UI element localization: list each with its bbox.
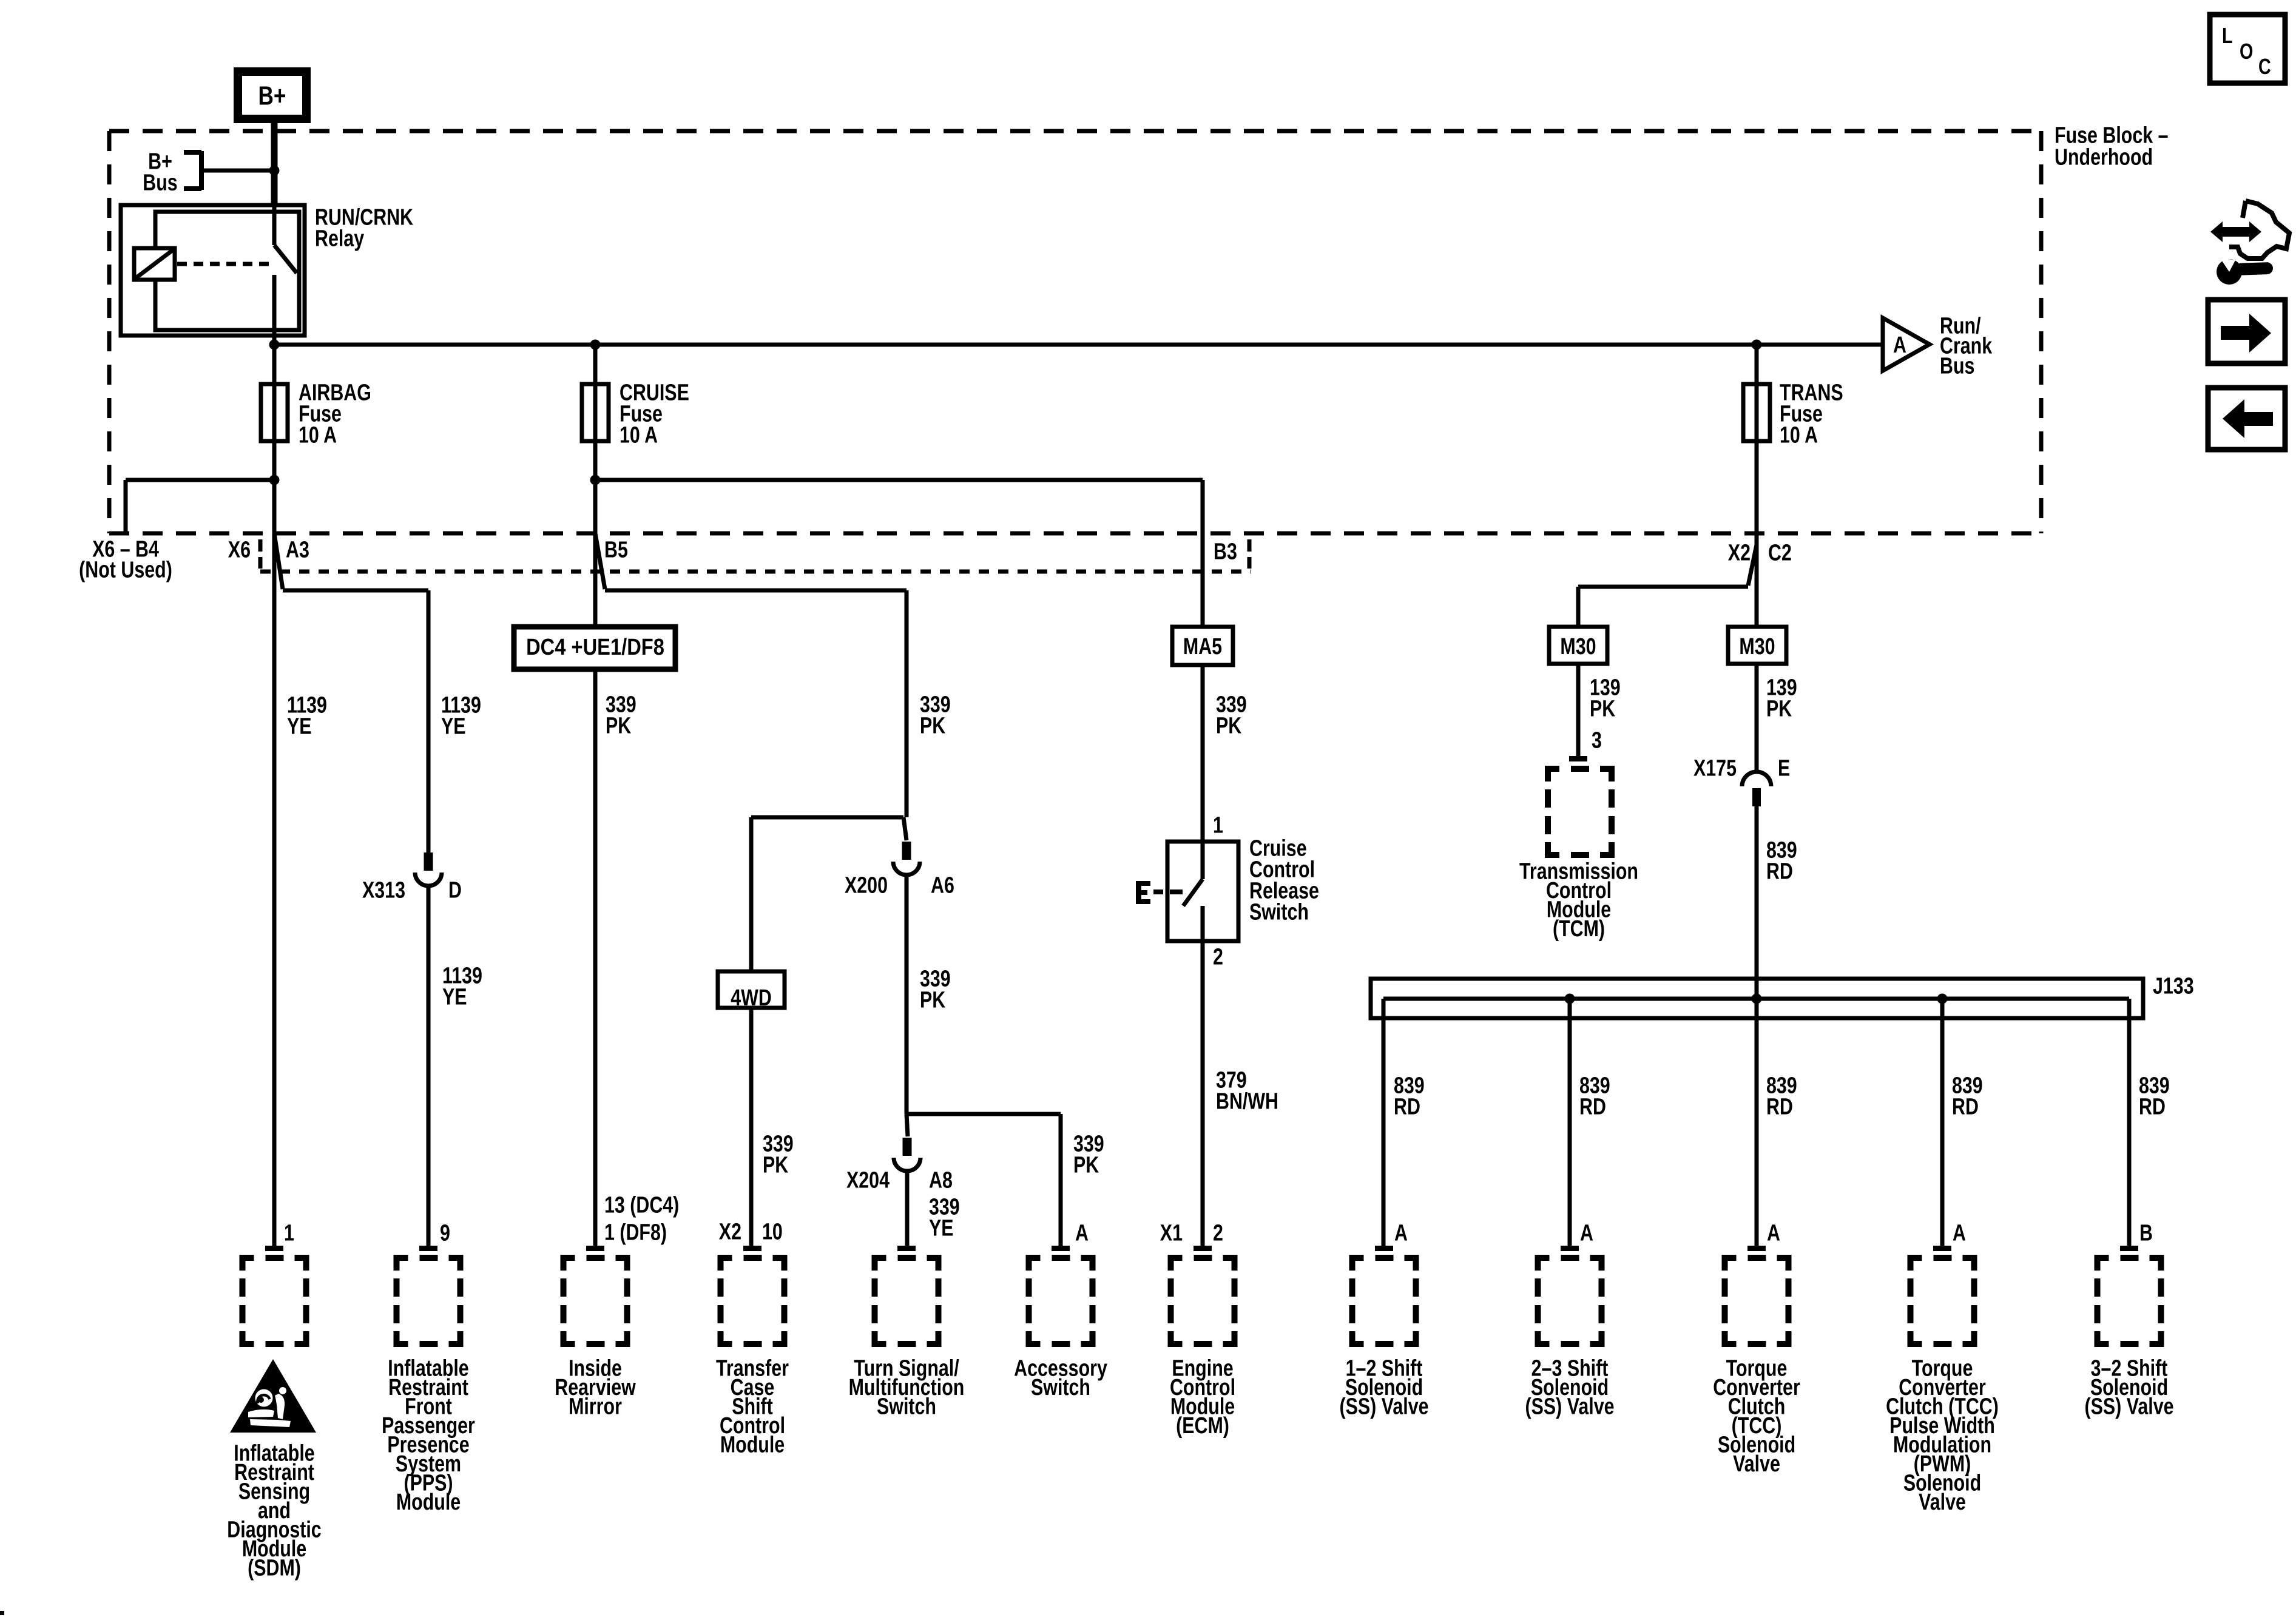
module transfer case dashed box (718, 1255, 788, 1347)
svg-text:PK: PK (763, 1152, 788, 1178)
node cruise fuse output (590, 475, 601, 485)
wire MA5 to cruise release switch (1201, 665, 1205, 842)
wire 339 PK to transfer case (749, 1008, 754, 1247)
svg-text:Module: Module (720, 1432, 785, 1457)
wire B+ bus tap (204, 169, 274, 173)
splice M30 (TCM) (1549, 627, 1607, 664)
terminal mirror (586, 1246, 604, 1251)
wire B+ to relay (271, 119, 278, 205)
label 1139 YE (SDM) (287, 692, 327, 739)
module turn signal dashed box (872, 1255, 942, 1347)
svg-text:X1: X1 (1160, 1220, 1183, 1246)
label 839 RD (1579, 1073, 1610, 1119)
label TRANS fuse (1780, 380, 1843, 448)
svg-text:PK: PK (920, 987, 945, 1013)
relay RUN/CRNK box (121, 205, 305, 336)
svg-text:YE: YE (929, 1215, 954, 1241)
svg-text:A: A (1953, 1220, 1966, 1246)
svg-text:A3: A3 (286, 537, 309, 562)
svg-text:BN/WH: BN/WH (1216, 1089, 1278, 1114)
label 839 RD (1766, 1073, 1797, 1119)
terminal PPS (419, 1246, 437, 1251)
label TCC Solenoid Valve (1713, 1355, 1800, 1476)
svg-text:RD: RD (1579, 1094, 1606, 1119)
wire 839 RD to TCC solenoid (1755, 999, 1759, 1247)
svg-text:PK: PK (1073, 1152, 1099, 1178)
label TCC PWM Solenoid Valve (1886, 1355, 1999, 1514)
module TCC PWM dashed box (1908, 1255, 1977, 1347)
terminal 2-3 shift (1561, 1246, 1579, 1251)
label 339 PK (transfer case) (763, 1131, 794, 1178)
wire bus through trans fuse (1755, 345, 1759, 627)
svg-text:RD: RD (1766, 1094, 1793, 1119)
svg-text:1: 1 (284, 1220, 294, 1246)
wire 1139 YE to X313 (427, 590, 431, 852)
svg-text:RD: RD (1394, 1094, 1420, 1119)
label Run/Crank Bus (1940, 313, 1993, 379)
svg-text:PK: PK (920, 713, 945, 738)
wire to ECM branch B3 (595, 478, 1203, 482)
label 339 PK (mirror) (606, 692, 636, 738)
svg-text:X2: X2 (719, 1219, 741, 1244)
connector X175 pin E (1742, 772, 1771, 806)
relay dashed actuator link (177, 262, 271, 266)
label 3-2 Shift Solenoid Valve (2085, 1355, 2174, 1419)
wire X200 slant (903, 817, 907, 840)
svg-text:O: O (2240, 39, 2253, 64)
module 3-2 shift dashed box (2095, 1255, 2164, 1347)
label Fuse Block - Underhood (2055, 123, 2169, 170)
splice pack J133 box (1371, 979, 2143, 1018)
label 2-3 Shift Solenoid Valve (1525, 1355, 1615, 1419)
svg-text:L: L (2222, 23, 2233, 48)
terminal accessory (1052, 1246, 1070, 1251)
svg-text:PK: PK (606, 713, 631, 738)
wire X6-B4 stub (124, 480, 128, 532)
svg-text:D: D (448, 877, 462, 903)
cruise switch contacts (1153, 842, 1203, 941)
terminal transfer case (743, 1246, 761, 1251)
svg-text:Switch: Switch (1031, 1375, 1090, 1400)
splice DC4 +UE1/DF8 (514, 627, 675, 669)
B+ battery terminal (238, 72, 306, 119)
wire 379 BN/WH to ECM (1201, 941, 1205, 1247)
svg-text:(ECM): (ECM) (1176, 1413, 1229, 1439)
svg-text:B+: B+ (258, 81, 286, 111)
label 1139 YE below X313 (442, 963, 482, 1010)
svg-text:9: 9 (440, 1220, 450, 1246)
wire M30 to TCM (1576, 664, 1581, 756)
wire to TCM branch (1578, 585, 1748, 589)
label Cruise Control Release Switch (1249, 836, 1319, 925)
svg-text:Valve: Valve (1919, 1490, 1966, 1515)
wire TCM branch down (1576, 587, 1581, 627)
cruise switch E plunger glyph (1136, 881, 1150, 904)
fuse block underhood dashed border (109, 131, 2041, 533)
label Transmission Control Module (TCM) (1519, 859, 1638, 941)
wire 4WD down (749, 817, 754, 971)
label 339 PK (ECM branch) (1216, 692, 1247, 738)
svg-text:Mirror: Mirror (569, 1394, 622, 1419)
terminal turn signal (897, 1246, 916, 1251)
switch Cruise Control Release box (1167, 842, 1238, 941)
fuse CRUISE 10A (582, 384, 609, 441)
svg-text:A: A (1767, 1220, 1780, 1246)
svg-text:Module: Module (396, 1490, 461, 1515)
label 839 RD (X175) (1766, 837, 1797, 884)
svg-text:B3: B3 (1214, 539, 1237, 564)
label 1139 YE (PPS) (441, 692, 481, 739)
label 1-2 Shift Solenoid Valve (1340, 1355, 1429, 1419)
icon diagnostic arrows + wrench (2210, 201, 2289, 285)
svg-text:10: 10 (762, 1219, 783, 1244)
wire 339 PK to MA5 (1201, 480, 1205, 627)
wire 839 RD to TCC PWM solenoid (1940, 999, 1945, 1247)
wire A3 branch horizontal (283, 589, 428, 593)
svg-text:DC4 +UE1/DF8: DC4 +UE1/DF8 (526, 634, 664, 660)
svg-text:MA5: MA5 (1183, 634, 1222, 660)
wire 339 PK X200 to X204 (905, 875, 909, 1114)
terminal 3-2 shift (2120, 1246, 2138, 1251)
wire bus through airbag fuse (272, 345, 277, 480)
svg-text:X2: X2 (1728, 540, 1751, 565)
wire pin C2 pass-through slant (1748, 545, 1757, 586)
label Turn Signal/Multifunction Switch (849, 1355, 965, 1419)
label SDM module (227, 1440, 321, 1581)
label 839 RD (1952, 1073, 1983, 1119)
connector X6 dashed line (260, 570, 1251, 574)
wire 339 PK to X200 (905, 590, 909, 817)
connector X6 separator left (258, 539, 263, 569)
label 339 YE below X204 (929, 1194, 960, 1241)
connector X204 pin A8 (894, 1138, 920, 1171)
svg-text:X6: X6 (228, 537, 251, 562)
label 139 PK (TCM) (1590, 675, 1621, 721)
svg-text:C: C (2258, 54, 2271, 79)
stray page mark bottom-left (0, 1611, 4, 1615)
wire 1139 YE to SDM (272, 480, 277, 1247)
svg-text:2: 2 (1213, 1220, 1223, 1246)
label AIRBAG fuse (299, 380, 371, 448)
svg-text:Underhood: Underhood (2055, 144, 2153, 170)
module PPS dashed box (394, 1255, 464, 1347)
svg-text:M30: M30 (1560, 634, 1596, 660)
wire bus through cruise fuse (593, 345, 598, 480)
wire to 4WD branch (751, 815, 903, 820)
terminal ECM (1194, 1246, 1212, 1251)
module mirror dashed box (561, 1255, 630, 1347)
svg-text:YE: YE (287, 714, 312, 739)
terminal bar TCM (1569, 756, 1587, 761)
wire B5 branch horizontal (605, 589, 907, 593)
svg-text:Relay: Relay (315, 226, 364, 251)
wire 339 YE to turn signal switch (905, 1171, 910, 1247)
node J133 at PWM (1937, 994, 1948, 1004)
svg-text:Bus: Bus (143, 170, 177, 195)
terminal TCC PWM (1933, 1246, 1951, 1251)
svg-text:A8: A8 (929, 1167, 953, 1193)
svg-text:A: A (1394, 1220, 1408, 1246)
node airbag fuse output (269, 475, 280, 485)
splice 4WD (718, 971, 785, 1011)
node B+ bus tap junction (269, 166, 280, 176)
module accessory dashed box (1026, 1255, 1096, 1347)
svg-text:X200: X200 (845, 873, 888, 898)
svg-text:A: A (1075, 1220, 1089, 1246)
node bus at cruise fuse (590, 340, 601, 350)
svg-text:(SDM): (SDM) (248, 1555, 301, 1581)
wire pin A3 pass-through slant (274, 533, 283, 589)
svg-text:(SS) Valve: (SS) Valve (2085, 1394, 2174, 1419)
svg-text:B: B (2139, 1220, 2153, 1246)
svg-text:J133: J133 (2153, 973, 2194, 999)
label PPS module (382, 1355, 475, 1514)
svg-text:C2: C2 (1768, 540, 1792, 565)
module TCC dashed box (1722, 1255, 1792, 1347)
connector X200 pin A6 (893, 842, 920, 875)
svg-text:B5: B5 (604, 537, 628, 562)
svg-text:13 (DC4): 13 (DC4) (604, 1192, 679, 1218)
svg-text:RD: RD (1766, 859, 1793, 884)
wire 839 RD to 1-2 shift solenoid (1382, 999, 1386, 1247)
icon LOC reference box (2210, 15, 2285, 83)
svg-text:2: 2 (1213, 944, 1223, 970)
off-page arrow A run/crank bus (1883, 318, 1930, 371)
svg-text:E: E (1778, 755, 1790, 781)
relay coil (134, 248, 175, 280)
terminal TCC (1747, 1246, 1766, 1251)
wire to accessory switch branch (907, 1112, 1061, 1116)
svg-text:1: 1 (1213, 812, 1223, 838)
icon forward arrow box (2208, 300, 2285, 363)
module TCM dashed box (1545, 766, 1615, 858)
icon backward arrow box (2208, 388, 2285, 450)
label Inside Rearview Mirror (555, 1355, 636, 1419)
node bus at relay output (269, 340, 280, 350)
label Transfer Case Shift Control Module (716, 1355, 789, 1457)
svg-text:A: A (1580, 1220, 1593, 1246)
wire 1139 YE X313 to PPS (427, 886, 431, 1247)
svg-text:Bus: Bus (1940, 353, 1974, 379)
module SDM dashed box (240, 1255, 309, 1347)
terminal 1-2 shift (1375, 1246, 1393, 1251)
node J133 at 2-3 shift (1565, 994, 1575, 1004)
pins 13 (DC4) / 1 (DF8) mirror (604, 1192, 679, 1245)
label 339 PK below X200 (920, 966, 951, 1013)
terminal SDM (265, 1246, 283, 1251)
label CRUISE fuse (620, 380, 689, 448)
wire to X6-B4 (126, 478, 274, 482)
svg-text:X204: X204 (846, 1167, 890, 1193)
label 139 PK (solenoid feed) (1766, 675, 1797, 721)
wire 339 PK to accessory switch (1059, 1114, 1063, 1247)
label Engine Control Module (ECM) (1170, 1355, 1235, 1438)
svg-text:YE: YE (442, 984, 467, 1010)
svg-text:3: 3 (1592, 727, 1602, 753)
svg-text:A6: A6 (931, 873, 954, 898)
module ECM dashed box (1168, 1255, 1238, 1347)
module 1-2 shift dashed box (1349, 1255, 1419, 1347)
svg-text:Switch: Switch (877, 1394, 936, 1419)
icon airbag warning triangle (SDM) (230, 1359, 316, 1433)
wire M30 to X175 (1755, 664, 1759, 772)
svg-text:A: A (1893, 333, 1906, 358)
svg-text:X175: X175 (1693, 755, 1737, 781)
relay switch contact (274, 205, 297, 345)
svg-text:(TCM): (TCM) (1553, 916, 1605, 942)
svg-text:10 A: 10 A (620, 422, 658, 448)
wire run/crank bus (274, 343, 1883, 347)
svg-text:YE: YE (441, 714, 466, 739)
label 839 RD (1394, 1073, 1425, 1119)
svg-text:RD: RD (1952, 1094, 1979, 1119)
wire J133 bus (1383, 997, 2129, 1001)
svg-text:Valve: Valve (1733, 1451, 1780, 1477)
svg-text:10 A: 10 A (1780, 422, 1818, 448)
svg-text:10 A: 10 A (299, 422, 337, 448)
svg-text:PK: PK (1766, 696, 1792, 721)
wire 839 RD to 3-2 shift solenoid (2127, 999, 2132, 1247)
svg-text:(SS) Valve: (SS) Valve (1525, 1394, 1615, 1419)
node J133 at TCC (1752, 994, 1762, 1004)
connector X313 pin D (415, 852, 442, 886)
node bus at trans fuse (1752, 340, 1762, 350)
fuse TRANS 10A (1743, 384, 1770, 441)
wire X204 slant (907, 1114, 908, 1136)
splice MA5 (1172, 627, 1233, 665)
svg-text:4WD: 4WD (731, 985, 772, 1011)
label RUN/CRNK Relay (315, 204, 413, 251)
label 379 BN/WH (1216, 1067, 1278, 1114)
label 839 RD (2139, 1073, 2170, 1119)
svg-text:(SS) Valve: (SS) Valve (1340, 1394, 1429, 1419)
label 339 PK (accessory) (1073, 1131, 1104, 1178)
wire 839 RD X175 to J133 (1755, 806, 1759, 999)
label X6-B4 Not Used (79, 536, 172, 582)
svg-text:X313: X313 (362, 877, 405, 903)
wire pin B5 pass-through slant (595, 533, 605, 589)
B+ Bus tap symbol (184, 151, 201, 190)
label 339 PK (X200) (920, 692, 951, 738)
svg-text:RD: RD (2139, 1094, 2166, 1119)
module 2-3 shift dashed box (1535, 1255, 1605, 1347)
svg-text:PK: PK (1216, 713, 1241, 738)
svg-text:Switch: Switch (1249, 899, 1309, 925)
wire 839 RD to 2-3 shift solenoid (1568, 999, 1572, 1247)
wire 339 PK to rearview mirror (593, 480, 598, 1247)
label Accessory Switch (1014, 1355, 1107, 1400)
svg-text:PK: PK (1590, 696, 1615, 721)
label B+ Bus (143, 149, 177, 195)
svg-text:M30: M30 (1739, 634, 1775, 660)
connector separator right of B3 (1248, 539, 1252, 569)
splice M30 (solenoids) (1728, 627, 1786, 664)
svg-text:(Not Used): (Not Used) (79, 557, 172, 582)
svg-text:1 (DF8): 1 (DF8) (604, 1220, 667, 1245)
fuse AIRBAG 10A (261, 384, 288, 441)
